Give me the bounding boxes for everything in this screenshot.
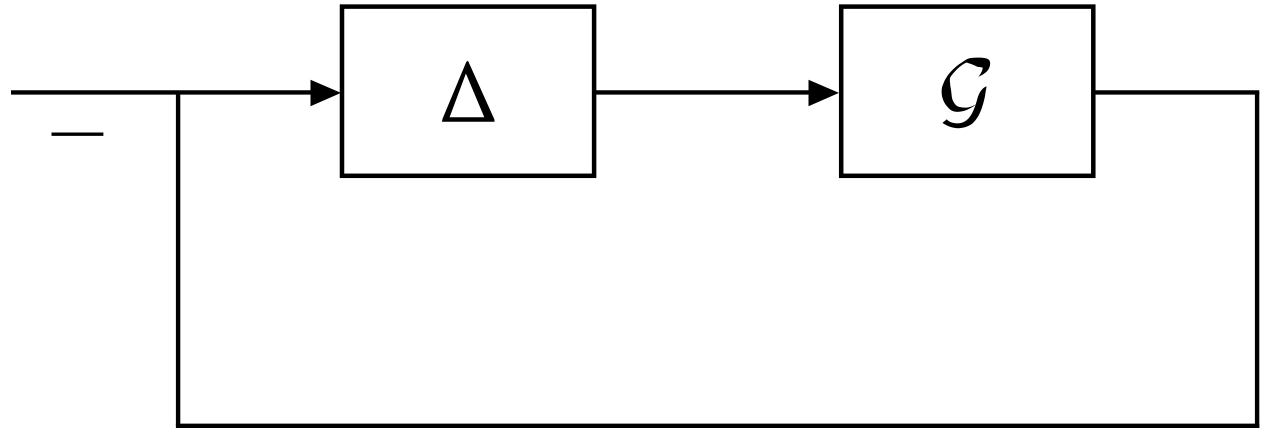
block G: rectangle [841, 7, 1093, 176]
minus sign (negative feedback label) [52, 132, 104, 135]
wire: line between Delta block and G block [595, 90, 814, 94]
label Delta (uppercase Greek Delta glyph) [442, 61, 495, 122]
wire: left vertical feedback riser [176, 92, 180, 425]
label G (script/calligraphic G glyph) [942, 58, 991, 129]
wire: right vertical feedback line [1255, 92, 1259, 428]
wire: output line from G block to right feedback corner [1095, 90, 1259, 94]
wire: bottom feedback line [176, 424, 1259, 428]
arrowhead into G block [809, 80, 840, 106]
block Delta: rectangle [342, 7, 594, 176]
arrowhead into Delta block [311, 80, 342, 106]
wire: input signal line from left edge to summing junction and on to Delta block [11, 90, 316, 94]
